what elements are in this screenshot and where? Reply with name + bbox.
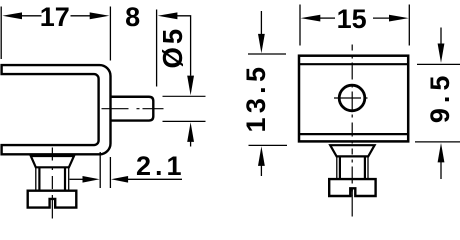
svg-text:2.1: 2.1 [136, 151, 186, 181]
svg-text:8: 8 [125, 2, 140, 32]
svg-text:13.5: 13.5 [241, 63, 271, 133]
svg-text:15: 15 [337, 4, 367, 34]
svg-text:9.5: 9.5 [425, 71, 455, 124]
svg-text:17: 17 [40, 2, 70, 32]
svg-text:Ø5: Ø5 [157, 26, 188, 69]
